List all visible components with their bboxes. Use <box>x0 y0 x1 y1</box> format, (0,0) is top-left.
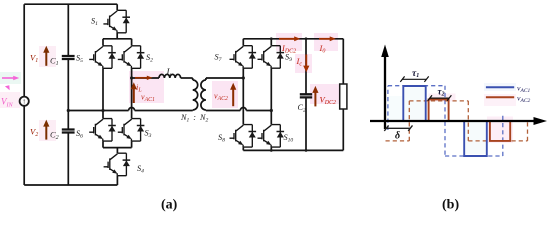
svg-text:vAC1: vAC1 <box>517 84 530 94</box>
svg-text:S5: S5 <box>76 53 83 64</box>
svg-text:C1: C1 <box>50 56 59 68</box>
svg-text:S1: S1 <box>91 17 98 28</box>
svg-text:S4: S4 <box>137 164 144 175</box>
svg-text:S7: S7 <box>215 53 222 64</box>
svg-text:(a): (a) <box>161 198 178 213</box>
svg-text:(b): (b) <box>442 198 459 213</box>
svg-text:C2: C2 <box>298 103 306 114</box>
svg-text:τ2: τ2 <box>438 87 445 98</box>
svg-text:S6: S6 <box>76 129 83 140</box>
svg-text:δ: δ <box>395 131 400 142</box>
svg-text:τ1: τ1 <box>412 69 419 79</box>
svg-text:C2: C2 <box>50 130 59 142</box>
svg-text:S8: S8 <box>218 133 225 144</box>
svg-text:S2: S2 <box>146 53 153 64</box>
svg-text:S10: S10 <box>284 133 294 144</box>
svg-text:V1: V1 <box>30 53 38 65</box>
svg-text:N1:N2: N1:N2 <box>180 113 208 124</box>
svg-text:V2: V2 <box>30 127 38 139</box>
svg-text:S3: S3 <box>145 129 152 140</box>
svg-text:L: L <box>166 67 172 77</box>
svg-text:vAC2: vAC2 <box>517 93 530 103</box>
